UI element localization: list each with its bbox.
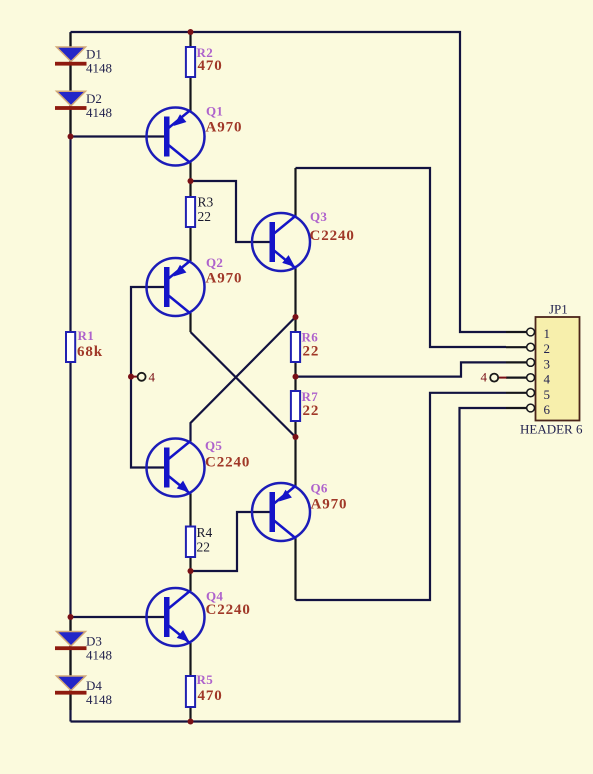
svg-text:4: 4	[481, 370, 488, 385]
svg-text:R6: R6	[302, 330, 319, 345]
svg-text:JP1: JP1	[549, 302, 568, 317]
svg-text:5: 5	[544, 387, 551, 402]
svg-text:22: 22	[197, 540, 211, 555]
svg-text:A970: A970	[311, 497, 348, 513]
svg-text:D4: D4	[86, 678, 102, 693]
svg-text:6: 6	[544, 402, 551, 417]
svg-text:R1: R1	[78, 328, 95, 343]
svg-text:Q1: Q1	[206, 104, 223, 119]
svg-text:470: 470	[198, 58, 223, 74]
svg-text:R3: R3	[198, 195, 214, 210]
svg-text:4148: 4148	[86, 648, 112, 663]
svg-text:470: 470	[198, 688, 223, 704]
svg-text:4: 4	[544, 372, 551, 387]
svg-text:C2240: C2240	[206, 602, 251, 618]
svg-text:Q3: Q3	[310, 209, 327, 224]
svg-text:2: 2	[544, 341, 551, 356]
svg-text:D2: D2	[86, 91, 102, 106]
svg-text:3: 3	[544, 356, 551, 371]
svg-text:R7: R7	[302, 389, 319, 404]
svg-text:C2240: C2240	[310, 228, 355, 244]
svg-text:R4: R4	[197, 525, 213, 540]
svg-text:A970: A970	[206, 120, 243, 136]
svg-text:C2240: C2240	[205, 455, 250, 471]
svg-text:HEADER 6: HEADER 6	[520, 422, 583, 437]
svg-text:D3: D3	[86, 634, 102, 649]
svg-text:Q5: Q5	[205, 438, 222, 453]
svg-text:Q6: Q6	[311, 481, 328, 496]
svg-text:Q2: Q2	[206, 255, 223, 270]
svg-text:4148: 4148	[86, 105, 112, 120]
svg-text:4148: 4148	[86, 692, 112, 707]
svg-text:22: 22	[198, 209, 212, 224]
svg-text:22: 22	[303, 344, 320, 360]
svg-text:22: 22	[303, 403, 320, 419]
svg-text:R5: R5	[197, 672, 214, 687]
svg-text:D1: D1	[86, 47, 102, 62]
svg-text:1: 1	[544, 326, 551, 341]
svg-text:68k: 68k	[77, 344, 103, 360]
svg-text:4: 4	[149, 370, 156, 385]
svg-text:A970: A970	[206, 271, 243, 287]
svg-text:4148: 4148	[86, 61, 112, 76]
